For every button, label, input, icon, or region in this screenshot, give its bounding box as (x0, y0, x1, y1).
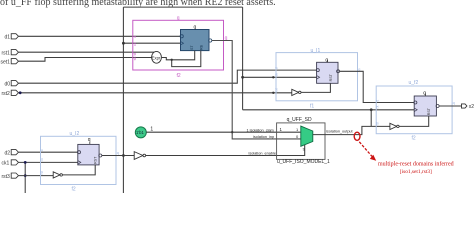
wire rst3 (19, 175, 54, 177)
svg-text:ck: ck (376, 105, 380, 109)
wire clamp value (146, 131, 300, 133)
wire clock to far-right ck (243, 109, 416, 111)
svg-text:Expr: Expr (152, 55, 161, 60)
wire clock net top (123, 7, 242, 193)
svg-text:1: 1 (150, 126, 153, 132)
svg-text:d: d (40, 149, 44, 151)
wire branch far-right rst (370, 110, 372, 127)
svg-text:q_UFF_SD: q_UFF_SD (287, 117, 312, 123)
port set1 (1, 59, 19, 66)
node rst2 stub dot (19, 91, 22, 94)
node pin dot u_I1 ck (272, 76, 274, 78)
node expr branch (171, 59, 173, 61)
module box u_FF (magenta) (133, 20, 224, 70)
svg-text:f1: f1 (310, 104, 314, 110)
inverter u_f2 (390, 123, 399, 129)
wire expr to ST (162, 51, 195, 60)
wire d0 (19, 70, 318, 83)
wire u_I2 inverter to rst pin (62, 165, 95, 175)
svg-text:q: q (177, 15, 180, 21)
wire q of u_I2 (102, 155, 134, 157)
flip-flop u_I1 (316, 58, 339, 84)
port rst2 (2, 90, 19, 97)
svg-text:ck: ck (40, 158, 44, 162)
port d0 (5, 81, 19, 88)
svg-text:1'b1: 1'b1 (136, 130, 144, 135)
svg-text:sb: sb (133, 57, 137, 61)
svg-text:d0: d0 (5, 81, 11, 87)
svg-text:f2: f2 (72, 187, 76, 193)
svg-text:st: st (133, 53, 137, 56)
wire u_f2 inverter to rst pin (399, 116, 429, 126)
wire rst2 (19, 92, 292, 94)
svg-text:q: q (88, 137, 91, 143)
svg-text:q: q (453, 101, 455, 105)
svg-text:rst: rst (40, 171, 44, 175)
node clock junction B (241, 76, 244, 79)
wire q of u_I1 to far-right d (340, 71, 417, 102)
svg-text:multiple-reset domains inferre: multiple-reset domains inferred (378, 160, 454, 167)
node clock junction C (370, 108, 373, 111)
wire ck1 (19, 162, 79, 193)
svg-text:q: q (423, 91, 426, 97)
constant 1'b1 (135, 126, 153, 138)
svg-text:q: q (325, 58, 328, 64)
svg-text:1 isolation_clam: 1 isolation_clam (247, 128, 274, 132)
svg-text:rst2: rst2 (2, 91, 11, 97)
red ellipse marker (354, 132, 360, 140)
flip-flop u_FF (180, 25, 212, 51)
node clock junction q of u_I2 (122, 154, 125, 157)
flip-flop u_f2 (414, 91, 439, 116)
svg-text:RST: RST (427, 107, 431, 115)
port d1 (5, 34, 19, 41)
svg-text:ST: ST (190, 45, 194, 50)
port rst1 (2, 50, 19, 57)
svg-text:d2: d2 (5, 150, 11, 156)
expr bubble (152, 51, 162, 63)
svg-text:f2: f2 (177, 73, 181, 79)
svg-text:isolation_inp: isolation_inp (253, 135, 274, 139)
svg-text:RST: RST (329, 73, 333, 81)
wire d2 (19, 151, 79, 153)
wire set1 (19, 58, 152, 62)
wire expr branch to RB (172, 51, 201, 67)
wire isolation output (313, 126, 390, 134)
wire q of u_f2 to port (439, 105, 461, 107)
svg-text:d: d (376, 100, 380, 102)
svg-text:isolation_output: isolation_output (326, 129, 354, 133)
red arrow (359, 142, 376, 161)
inverter enable (134, 152, 145, 160)
svg-text:set1: set1 (1, 59, 11, 65)
module box u_I1 (light blue) (276, 53, 358, 101)
node crossing clamp (231, 131, 233, 133)
port x2 (462, 104, 474, 110)
wire rst1 (19, 51, 155, 53)
svg-text:d: d (133, 36, 137, 38)
node pin dot u_I1 rst (272, 92, 274, 94)
module box u_UFF_ISO_MODEL_1 (277, 123, 325, 159)
svg-text:0: 0 (296, 134, 299, 139)
svg-text:rst: rst (376, 122, 380, 126)
svg-text:[iso1,set1,rst3]: [iso1,set1,rst3] (400, 169, 432, 175)
port rst3 (2, 173, 19, 180)
svg-text:d: d (274, 67, 278, 69)
svg-text:f2: f2 (412, 136, 416, 142)
wire d1 (19, 35, 181, 37)
svg-text:q: q (194, 25, 197, 31)
wire branch u_FF ck (123, 42, 181, 44)
svg-text:RB: RB (200, 44, 204, 50)
svg-text:RST: RST (94, 156, 98, 164)
node rst3 crossing dot (24, 174, 27, 177)
svg-text:ck: ck (133, 42, 137, 46)
svg-text:ck: ck (274, 73, 278, 77)
svg-text:u_I1: u_I1 (311, 48, 321, 54)
node ck1 junction (24, 161, 27, 164)
svg-text:rst1: rst1 (2, 50, 11, 56)
wire q of u_FF to isolation input (212, 41, 302, 139)
svg-text:isolation_enable: isolation_enable (249, 152, 276, 156)
inverter u_I1 (292, 89, 301, 95)
flip-flop u_I2 (78, 137, 102, 165)
svg-text:q: q (117, 151, 119, 155)
svg-text:x2: x2 (469, 104, 474, 110)
svg-text:rst3: rst3 (2, 174, 11, 180)
svg-text:S: S (303, 147, 306, 152)
svg-text:1: 1 (280, 127, 283, 132)
svg-text:d1: d1 (5, 35, 11, 41)
svg-text:rst: rst (274, 88, 278, 92)
node clock junction A (122, 42, 125, 45)
svg-text:u_f2: u_f2 (409, 80, 419, 86)
svg-text:ck1: ck1 (2, 161, 10, 167)
mux in ISO model (296, 126, 313, 152)
svg-text:u_UFF_ISO_MODEL_1: u_UFF_ISO_MODEL_1 (277, 159, 330, 165)
port ck1 (2, 160, 19, 167)
port d2 (5, 150, 19, 157)
module box u_f2 (light blue far right) (376, 86, 452, 134)
wire u_I1 inverter to rst pin (301, 83, 330, 92)
inverter u_I2 (53, 172, 62, 178)
module box u_I2 (light blue) (41, 136, 117, 184)
svg-text:u_I2: u_I2 (70, 131, 80, 137)
wire branch u_I1 ck (243, 76, 318, 78)
svg-text:1: 1 (296, 127, 299, 132)
wire isolation enable (146, 145, 305, 156)
